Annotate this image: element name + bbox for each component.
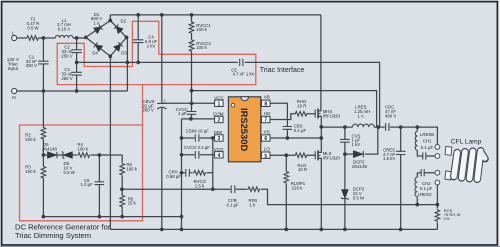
wire C6 branch <box>98 155 100 217</box>
wire CBUS branch vertical <box>161 15 163 230</box>
wire bridge bottom DC- down and bottom rail B <box>110 56 437 229</box>
resistor R5 <box>120 163 125 176</box>
capacitor C2 <box>71 50 81 53</box>
wire DCP2 diode line <box>345 127 378 154</box>
wire VS output line east <box>321 127 437 144</box>
red connector segment between boxes <box>142 85 144 125</box>
svg-text:LRESC: LRESC <box>418 192 432 197</box>
svg-text:Triac Dimming System: Triac Dimming System <box>15 231 91 240</box>
svg-text:D2: D2 <box>121 19 127 24</box>
wire lamp F2 bottom riser <box>436 185 438 205</box>
svg-text:4.7 nF 1 kV: 4.7 nF 1 kV <box>233 72 255 77</box>
svg-text:DIM: DIM <box>214 130 223 135</box>
resistor R4 <box>77 153 90 158</box>
wire D5 D6 R4 line <box>43 154 122 156</box>
svg-text:Input: Input <box>8 66 19 71</box>
IC pin boxes <box>215 100 270 158</box>
svg-text:220 k: 220 k <box>292 185 303 190</box>
diode D4 <box>94 42 103 51</box>
capacitor CDIM <box>195 134 199 142</box>
wire DC+ top rail <box>110 14 321 16</box>
wire RCS branch <box>436 205 438 230</box>
resistor R6 <box>120 195 125 208</box>
wire MHS source to VS node <box>318 116 321 152</box>
resistor RVCC2 <box>189 39 194 52</box>
svg-text:5: 5 <box>264 154 267 160</box>
svg-text:0.68 μF: 0.68 μF <box>166 174 181 179</box>
resistor RFB <box>247 187 260 192</box>
zener D6 <box>64 152 73 158</box>
resistor R3 <box>41 166 46 179</box>
wire CPH RVCO line <box>182 172 213 174</box>
diode D2 <box>114 25 123 34</box>
svg-text:+: + <box>163 98 166 103</box>
wire DC+ vertical to half-bridge <box>318 15 321 111</box>
svg-text:LO: LO <box>264 147 271 152</box>
wire charge pump line y90 <box>192 91 377 128</box>
capacitor CRES <box>396 151 406 154</box>
CFL Lamp <box>435 145 485 185</box>
capacitor CFB <box>231 185 235 193</box>
wire HO pin7 to RHO to MHS gate <box>270 114 315 120</box>
svg-text:100 k: 100 k <box>196 45 207 50</box>
wire VCC line to pin 1 <box>162 102 215 104</box>
svg-text:HO: HO <box>264 111 271 116</box>
capacitor CPH <box>186 169 190 177</box>
capacitor CVS <box>340 139 350 142</box>
wire R5 branch <box>121 155 123 189</box>
wire C4 branch <box>137 15 139 63</box>
text labels <box>7 12 255 101</box>
svg-text:100 k: 100 k <box>126 167 137 172</box>
resistor RVCO <box>193 171 206 176</box>
lamp spiral tube <box>454 151 481 179</box>
capacitor CVCO <box>195 151 199 159</box>
diode D1 <box>94 25 103 34</box>
capacitor C1 <box>38 61 48 64</box>
wire neutral-coupled line y62 through C5 <box>77 62 380 127</box>
capacitor CDC <box>386 123 389 131</box>
svg-text:N: N <box>12 95 16 101</box>
Triac Interface red outline box <box>57 21 256 84</box>
wire LRESC branch <box>416 173 418 205</box>
resistor RHO <box>295 111 308 116</box>
capacitor C4 <box>133 40 143 43</box>
wire DIM riser <box>212 138 214 189</box>
svg-text:IRS2530D: IRS2530D <box>239 108 250 151</box>
inductor LRESC <box>415 177 417 196</box>
svg-text:250 V: 250 V <box>61 76 72 81</box>
capacitor CH2 <box>421 169 424 176</box>
wire CH2 line <box>417 172 435 174</box>
svg-text:1N4148: 1N4148 <box>352 164 368 169</box>
diode bridge diamond <box>86 21 127 57</box>
wire reference rail A <box>43 216 181 218</box>
diode D3 <box>114 42 123 51</box>
svg-text:100 k: 100 k <box>25 169 36 174</box>
wire C1 branch vertical <box>42 38 44 91</box>
svg-text:10 R: 10 R <box>298 167 307 172</box>
svg-text:VS: VS <box>264 129 270 134</box>
svg-text:1 A: 1 A <box>93 21 99 26</box>
svg-text:4: 4 <box>218 153 221 159</box>
svg-text:IRFU320: IRFU320 <box>323 113 341 118</box>
wire LRESB branch <box>417 127 435 156</box>
svg-text:1 μF: 1 μF <box>178 111 187 116</box>
svg-text:400 V: 400 V <box>385 113 396 118</box>
svg-text:1%: 1% <box>444 216 450 221</box>
svg-text:100 k: 100 k <box>196 27 207 32</box>
capacitor CBS <box>283 127 293 130</box>
wire R6 branch <box>121 189 123 216</box>
capacitor CVCC <box>187 112 197 115</box>
capacitor CBUS electrolytic <box>157 103 166 109</box>
wire MLS source to rail B <box>318 158 321 229</box>
inductor LRES <box>353 124 375 127</box>
svg-text:10 R: 10 R <box>297 103 306 108</box>
wire L1 to bridge left vertex <box>73 37 86 39</box>
transistor MLS <box>314 151 316 159</box>
svg-text:CVCO 2.2 μF: CVCO 2.2 μF <box>184 145 210 150</box>
svg-text:0.15 A: 0.15 A <box>58 27 70 32</box>
svg-text:VCO: VCO <box>214 147 224 152</box>
svg-text:100 k: 100 k <box>78 147 89 152</box>
svg-text:100 k: 100 k <box>25 137 36 142</box>
terminal L <box>12 35 17 40</box>
svg-text:0.1 μF: 0.1 μF <box>421 145 434 150</box>
svg-text:0.1 μF: 0.1 μF <box>227 202 240 207</box>
wire CRES branch <box>400 127 402 229</box>
wire zener DCP2 branch <box>344 154 346 229</box>
terminal N <box>12 88 17 93</box>
resistor RVCC1 <box>189 21 194 34</box>
svg-text:IRFU320: IRFU320 <box>323 155 341 160</box>
svg-text:CH1: CH1 <box>423 138 432 143</box>
svg-text:LRESB: LRESB <box>420 132 434 137</box>
wire RVCC chain vertical <box>191 15 193 119</box>
resistor RLO <box>295 153 308 158</box>
wire COM line to pin 2 <box>182 118 215 120</box>
wire DIM line through CDIM <box>182 137 215 139</box>
wire VS pin6 line <box>270 137 321 139</box>
svg-text:Triac Interface: Triac Interface <box>260 67 305 74</box>
inductor LRESB <box>415 131 417 150</box>
capacitor C5 <box>240 59 243 66</box>
svg-text:D3: D3 <box>121 51 127 56</box>
wire bridge top to DC+ rail <box>109 15 111 21</box>
svg-text:1 kV: 1 kV <box>352 142 361 147</box>
svg-text:1 k: 1 k <box>250 202 257 207</box>
svg-text:7: 7 <box>264 118 267 124</box>
resistor RLMP1 <box>284 171 289 184</box>
svg-text:1 kV: 1 kV <box>147 43 156 48</box>
IC pin name labels <box>213 94 271 151</box>
inductor L1 <box>55 35 73 38</box>
svg-text:L: L <box>12 31 15 37</box>
svg-text:1 A: 1 A <box>358 113 364 118</box>
wire R2 R3 divider chain <box>42 91 44 217</box>
svg-text:D4: D4 <box>92 51 98 56</box>
diode D5 <box>48 152 57 158</box>
svg-text:1N4148: 1N4148 <box>42 146 58 151</box>
resistor F1 <box>26 36 39 41</box>
svg-text:200 V: 200 V <box>143 108 154 113</box>
svg-text:1.0 μF: 1.0 μF <box>81 182 94 187</box>
wire F1 to L1 <box>39 37 55 39</box>
svg-text:1.6 kV: 1.6 kV <box>383 156 395 161</box>
lamp filament plug top <box>445 146 452 155</box>
wire reference feedback line y189 <box>122 189 438 204</box>
capacitor C6 <box>95 182 105 185</box>
capacitor CH1 <box>423 152 426 159</box>
wire VCO line through CVCO <box>182 154 215 156</box>
svg-text:3: 3 <box>218 136 221 142</box>
capacitor C3 <box>71 72 81 75</box>
IC op-amp U1 IRS2530D body <box>228 97 260 162</box>
DC Reference Generator red box <box>20 125 143 221</box>
resistor RCS <box>435 209 440 222</box>
resistor R2 <box>41 127 46 140</box>
svg-text:0.5 W: 0.5 W <box>353 195 365 200</box>
svg-text:250 V: 250 V <box>26 63 37 68</box>
svg-text:VB: VB <box>264 94 270 99</box>
svg-text:2: 2 <box>218 118 221 124</box>
lamp filament plug bottom <box>445 171 452 180</box>
wire LO pin5 to RLO to MLS gate <box>270 154 315 156</box>
svg-text:8: 8 <box>264 101 267 107</box>
wire C2 C3 branch vertical <box>76 38 78 91</box>
diode DCP2 1N4148 <box>354 151 363 157</box>
svg-text:1: 1 <box>218 101 221 107</box>
svg-text:15 k: 15 k <box>128 201 137 206</box>
svg-text:250 V: 250 V <box>61 53 72 58</box>
wire L line from L terminal to fuse <box>17 37 26 39</box>
svg-text:COM: COM <box>213 112 224 117</box>
svg-text:0.5 W: 0.5 W <box>27 25 39 30</box>
svg-text:1.5 k: 1.5 k <box>195 183 205 188</box>
svg-text:0.1 μF: 0.1 μF <box>294 128 307 133</box>
wire RLMP1 branch <box>285 155 287 229</box>
svg-text:VCC: VCC <box>214 95 224 100</box>
transistor MHS <box>314 110 316 118</box>
svg-text:0.1 μF: 0.1 μF <box>420 186 433 191</box>
bottom outer gray strip <box>0 246 500 247</box>
wire CVS branch <box>344 127 346 154</box>
wire COM vertical <box>181 119 183 229</box>
svg-text:0.5 W: 0.5 W <box>64 170 76 175</box>
wire N riser to bridge right vertex <box>126 37 128 91</box>
svg-text:CFL Lamp: CFL Lamp <box>451 138 482 145</box>
svg-text:6: 6 <box>264 136 267 142</box>
wire N line <box>17 90 128 92</box>
zener DCP2 10V <box>342 190 348 198</box>
svg-text:CDIM 10 μF: CDIM 10 μF <box>186 128 210 133</box>
wire VB pin8 to CBS <box>270 103 287 138</box>
